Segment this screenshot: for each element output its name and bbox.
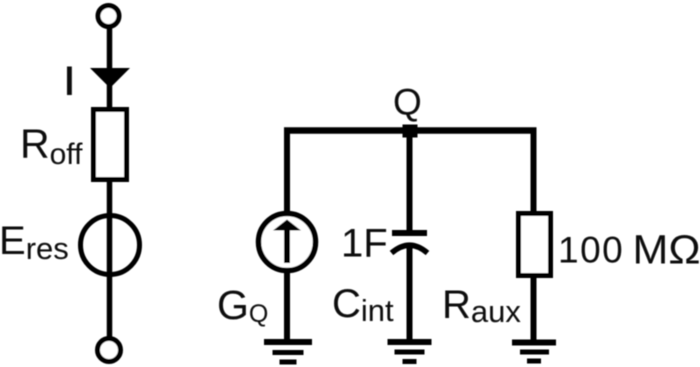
capacitor C_int (curved bottom plate) (392, 245, 428, 253)
wire (horizontal bus at node Q) (284, 127, 537, 134)
svg-text:MΩ: MΩ (633, 227, 700, 273)
svg-text:Q: Q (393, 82, 422, 123)
label C_int (332, 282, 394, 328)
current source G_Q (circle with up arrow) (259, 214, 316, 271)
capacitor C_int (top plate) (392, 230, 427, 236)
label 100 MOhm (558, 227, 700, 273)
node Q (junction dot) (403, 125, 418, 138)
wire (current source G_Q to ground) (284, 270, 290, 342)
wire (bus down to current source G_Q) (284, 128, 290, 215)
terminal (open circle, bottom of left branch) (98, 339, 121, 362)
label G_Q (217, 282, 268, 328)
resistor R_aux (rectangle) (519, 214, 551, 276)
svg-text:100: 100 (558, 230, 624, 271)
label R_aux (442, 283, 521, 329)
current direction arrow I (filled triangle pointing down) (90, 68, 130, 88)
label E_res (0, 219, 69, 266)
wire (capacitor C_int to ground) (407, 248, 413, 342)
ground (below G_Q) (264, 342, 312, 362)
wire (bus down to resistor R_aux) (531, 128, 537, 215)
wire (resistor R_off to E_res source) (107, 182, 113, 338)
label Q (393, 82, 422, 123)
label R_off (20, 121, 83, 172)
label I (67, 67, 72, 96)
ground (below C_int) (388, 342, 432, 362)
source E_res (circle) (81, 216, 140, 275)
ground (below R_aux) (512, 343, 556, 362)
svg-text:1F: 1F (341, 222, 388, 266)
wire (resistor R_aux to ground) (531, 278, 537, 342)
terminal (open circle, top of left branch) (98, 6, 119, 27)
wire (node Q down to capacitor C_int) (407, 134, 413, 232)
resistor R_off (rectangle) (94, 110, 127, 180)
wire (top terminal to resistor R_off) (107, 27, 113, 111)
label 1F (341, 222, 388, 266)
